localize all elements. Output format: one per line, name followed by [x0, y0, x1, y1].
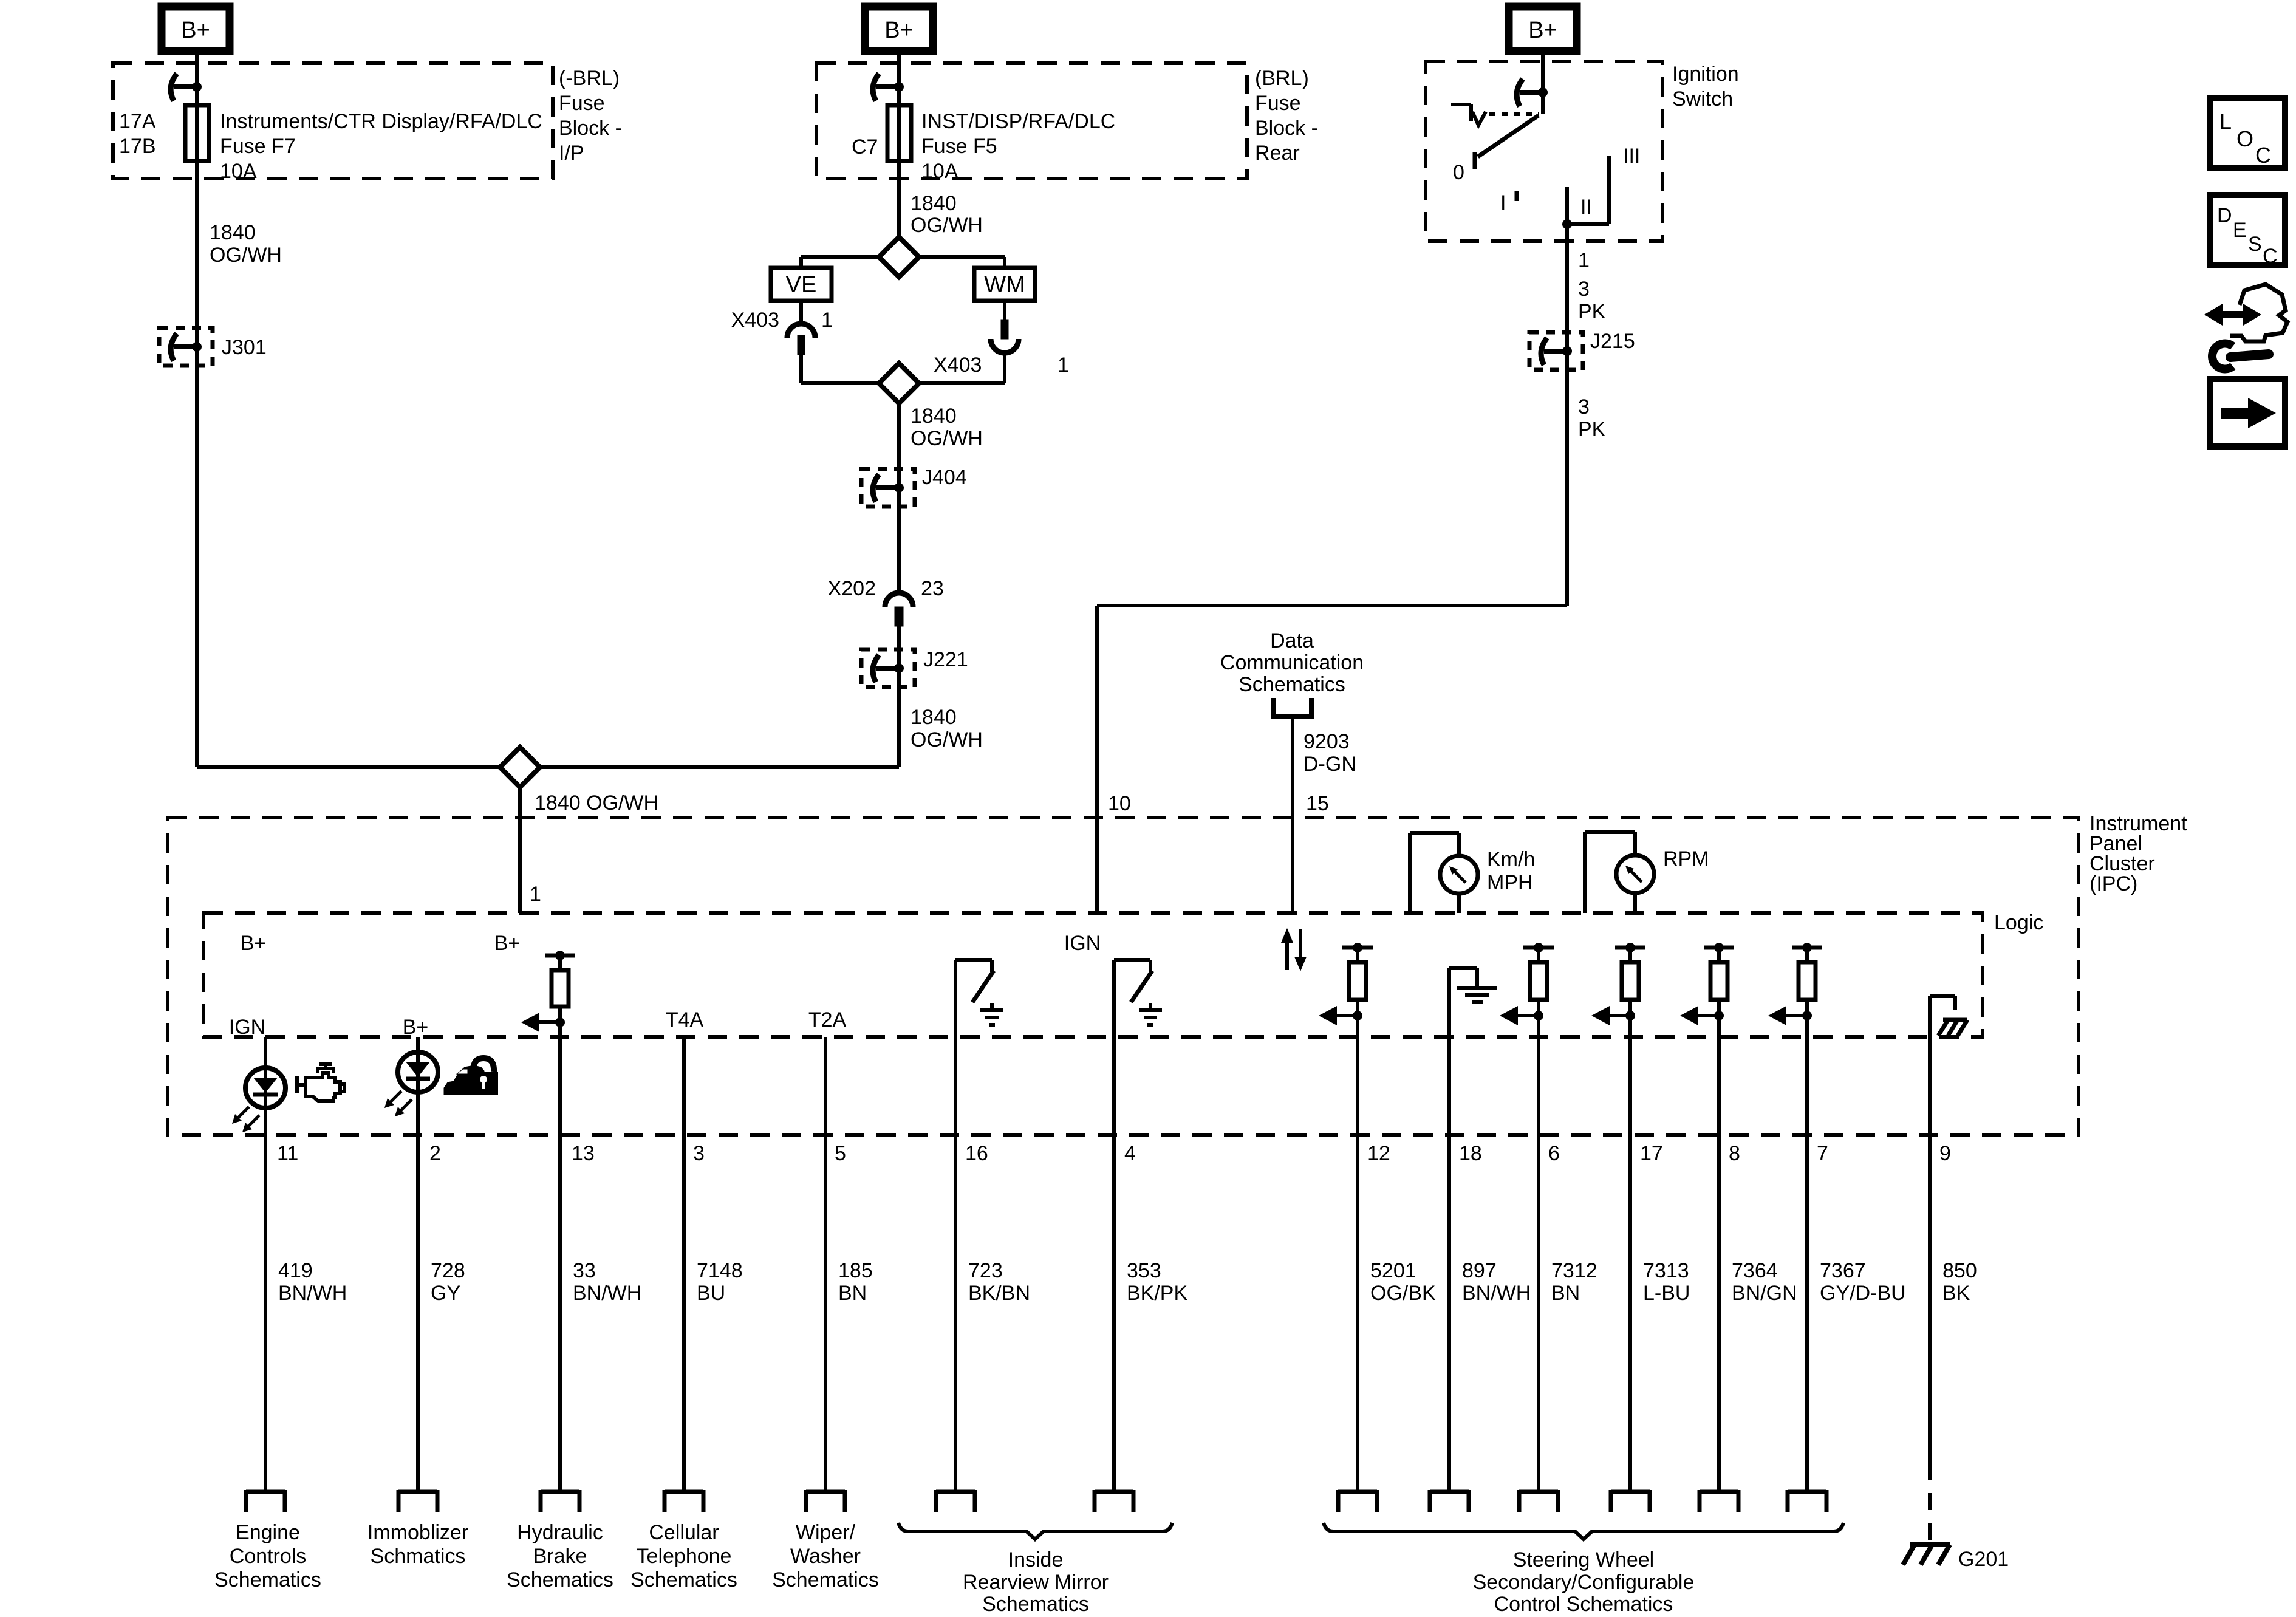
svg-text:897: 897	[1462, 1259, 1497, 1282]
svg-text:GY/D-BU: GY/D-BU	[1820, 1282, 1906, 1305]
svg-text:Fuse F7: Fuse F7	[220, 135, 296, 158]
svg-text:Block -: Block -	[1255, 117, 1318, 140]
svg-text:Data: Data	[1270, 629, 1314, 652]
svg-text:BN/GN: BN/GN	[1732, 1282, 1797, 1305]
svg-text:8: 8	[1729, 1142, 1740, 1165]
svg-text:17B: 17B	[119, 135, 156, 158]
svg-text:I: I	[1500, 191, 1506, 214]
svg-text:1: 1	[1057, 354, 1069, 377]
svg-text:Fuse: Fuse	[1255, 92, 1301, 115]
svg-text:Cellular: Cellular	[649, 1521, 719, 1544]
svg-text:(IPC): (IPC)	[2089, 872, 2137, 895]
svg-text:1840: 1840	[210, 221, 256, 244]
svg-text:Instruments/CTR Display/RFA/DL: Instruments/CTR Display/RFA/DLC	[220, 110, 542, 133]
svg-text:RPM: RPM	[1663, 847, 1709, 870]
svg-text:18: 18	[1459, 1142, 1482, 1165]
svg-text:Ignition: Ignition	[1672, 63, 1739, 86]
svg-text:Schematics: Schematics	[630, 1568, 737, 1591]
svg-text:B+: B+	[494, 932, 521, 955]
svg-text:WM: WM	[984, 272, 1025, 298]
svg-text:J215: J215	[1590, 330, 1635, 353]
svg-text:BN/WH: BN/WH	[278, 1282, 347, 1305]
svg-text:Rear: Rear	[1255, 142, 1300, 165]
svg-text:INST/DISP/RFA/DLC: INST/DISP/RFA/DLC	[921, 110, 1115, 133]
svg-text:7367: 7367	[1820, 1259, 1866, 1282]
svg-text:7313: 7313	[1643, 1259, 1689, 1282]
svg-text:4: 4	[1124, 1142, 1136, 1165]
svg-text:I/P: I/P	[559, 142, 584, 165]
svg-text:B+: B+	[403, 1016, 429, 1039]
svg-text:VE: VE	[786, 272, 817, 298]
svg-text:728: 728	[431, 1259, 465, 1282]
svg-text:OG/WH: OG/WH	[911, 728, 983, 751]
svg-text:2: 2	[429, 1142, 441, 1165]
svg-text:3: 3	[1578, 278, 1590, 301]
svg-text:7364: 7364	[1732, 1259, 1778, 1282]
svg-text:BN: BN	[838, 1282, 867, 1305]
svg-text:723: 723	[968, 1259, 1003, 1282]
svg-text:BN/WH: BN/WH	[1462, 1282, 1531, 1305]
svg-text:Immoblizer: Immoblizer	[367, 1521, 468, 1544]
svg-text:B+: B+	[1528, 18, 1557, 43]
svg-text:C: C	[2263, 245, 2278, 268]
svg-text:Block -: Block -	[559, 117, 622, 140]
svg-text:13: 13	[572, 1142, 595, 1165]
svg-text:G201: G201	[1958, 1548, 2009, 1571]
svg-text:Engine: Engine	[236, 1521, 300, 1544]
svg-text:353: 353	[1127, 1259, 1161, 1282]
svg-text:Fuse: Fuse	[559, 92, 605, 115]
svg-text:Schematics: Schematics	[1239, 673, 1345, 696]
svg-text:1840: 1840	[911, 405, 957, 428]
svg-text:T2A: T2A	[808, 1008, 847, 1031]
svg-text:T4A: T4A	[666, 1008, 704, 1031]
svg-text:Communication: Communication	[1220, 651, 1364, 674]
svg-text:0: 0	[1453, 161, 1464, 184]
svg-text:Hydraulic: Hydraulic	[517, 1521, 603, 1544]
svg-text:Washer: Washer	[790, 1545, 861, 1568]
svg-text:3: 3	[693, 1142, 705, 1165]
svg-text:E: E	[2233, 219, 2247, 242]
svg-text:1: 1	[1578, 249, 1590, 272]
svg-text:L-BU: L-BU	[1643, 1282, 1690, 1305]
svg-text:850: 850	[1942, 1259, 1977, 1282]
svg-text:Fuse F5: Fuse F5	[921, 135, 997, 158]
svg-text:5201: 5201	[1370, 1259, 1416, 1282]
svg-text:23: 23	[921, 577, 944, 600]
svg-text:Brake: Brake	[533, 1545, 587, 1568]
svg-text:D: D	[2217, 204, 2232, 227]
svg-text:BN: BN	[1551, 1282, 1580, 1305]
svg-text:Inside: Inside	[1008, 1548, 1064, 1571]
svg-text:Rearview Mirror: Rearview Mirror	[963, 1571, 1109, 1594]
svg-text:Steering Wheel: Steering Wheel	[1513, 1548, 1654, 1571]
svg-text:IGN: IGN	[1064, 932, 1101, 955]
svg-text:J301: J301	[222, 336, 267, 359]
svg-text:BK/BN: BK/BN	[968, 1282, 1030, 1305]
svg-text:II: II	[1580, 196, 1592, 219]
svg-text:5: 5	[835, 1142, 846, 1165]
svg-text:(-BRL): (-BRL)	[559, 67, 620, 90]
svg-text:B+: B+	[241, 932, 267, 955]
svg-text:B+: B+	[181, 18, 210, 43]
svg-text:OG/WH: OG/WH	[210, 244, 282, 267]
svg-text:Schematics: Schematics	[772, 1568, 879, 1591]
svg-text:15: 15	[1306, 792, 1329, 815]
svg-text:1: 1	[530, 883, 541, 906]
svg-text:X403: X403	[731, 309, 779, 332]
svg-text:PK: PK	[1578, 300, 1606, 323]
svg-text:O: O	[2236, 126, 2253, 151]
svg-text:9203: 9203	[1303, 730, 1350, 753]
svg-text:185: 185	[838, 1259, 873, 1282]
svg-text:17: 17	[1640, 1142, 1663, 1165]
svg-text:IGN: IGN	[229, 1016, 265, 1039]
svg-text:BN/WH: BN/WH	[573, 1282, 641, 1305]
svg-text:1840: 1840	[911, 706, 957, 729]
svg-text:B+: B+	[884, 18, 914, 43]
svg-text:Wiper/: Wiper/	[796, 1521, 856, 1544]
svg-text:16: 16	[965, 1142, 988, 1165]
svg-text:7: 7	[1817, 1142, 1828, 1165]
svg-text:Control Schematics: Control Schematics	[1494, 1593, 1673, 1616]
svg-text:3: 3	[1578, 395, 1590, 419]
svg-text:C7: C7	[852, 135, 878, 159]
svg-text:419: 419	[278, 1259, 313, 1282]
svg-text:17A: 17A	[119, 110, 156, 133]
svg-text:Schmatics: Schmatics	[371, 1545, 466, 1568]
svg-text:PK: PK	[1578, 418, 1606, 441]
svg-text:X202: X202	[828, 577, 876, 600]
svg-text:Schematics: Schematics	[982, 1593, 1089, 1616]
svg-text:OG/BK: OG/BK	[1370, 1282, 1436, 1305]
svg-text:Km/h: Km/h	[1487, 848, 1535, 871]
svg-text:S: S	[2248, 233, 2262, 256]
svg-text:GY: GY	[431, 1282, 460, 1305]
svg-text:BK/PK: BK/PK	[1127, 1282, 1187, 1305]
svg-text:L: L	[2219, 109, 2232, 134]
svg-text:10A: 10A	[921, 160, 958, 183]
svg-text:7148: 7148	[697, 1259, 743, 1282]
svg-text:D-GN: D-GN	[1303, 753, 1356, 776]
svg-text:(BRL): (BRL)	[1255, 67, 1309, 90]
svg-text:OG/WH: OG/WH	[911, 214, 983, 237]
svg-text:1: 1	[821, 309, 833, 332]
svg-text:Controls: Controls	[230, 1545, 307, 1568]
svg-text:10: 10	[1108, 792, 1131, 815]
svg-text:12: 12	[1367, 1142, 1390, 1165]
svg-text:J404: J404	[922, 466, 967, 489]
svg-text:BU: BU	[697, 1282, 725, 1305]
svg-text:9: 9	[1939, 1142, 1951, 1165]
svg-text:11: 11	[277, 1142, 298, 1165]
svg-text:Schematics: Schematics	[507, 1568, 613, 1591]
svg-text:Telephone: Telephone	[637, 1545, 732, 1568]
svg-text:Switch: Switch	[1672, 87, 1733, 111]
svg-text:1840 OG/WH: 1840 OG/WH	[535, 791, 658, 815]
svg-text:III: III	[1623, 145, 1640, 168]
svg-text:J221: J221	[923, 648, 968, 671]
svg-text:OG/WH: OG/WH	[911, 427, 983, 450]
svg-text:C: C	[2255, 143, 2271, 168]
svg-text:6: 6	[1548, 1142, 1560, 1165]
svg-text:MPH: MPH	[1487, 871, 1533, 894]
svg-text:10A: 10A	[220, 160, 257, 183]
svg-text:Schematics: Schematics	[214, 1568, 321, 1591]
svg-text:BK: BK	[1942, 1282, 1970, 1305]
svg-text:Logic: Logic	[1994, 911, 2043, 934]
svg-text:7312: 7312	[1551, 1259, 1597, 1282]
svg-text:X403: X403	[934, 354, 982, 377]
svg-text:1840: 1840	[911, 192, 957, 215]
svg-text:33: 33	[573, 1259, 596, 1282]
svg-text:Secondary/Configurable: Secondary/Configurable	[1473, 1571, 1695, 1594]
